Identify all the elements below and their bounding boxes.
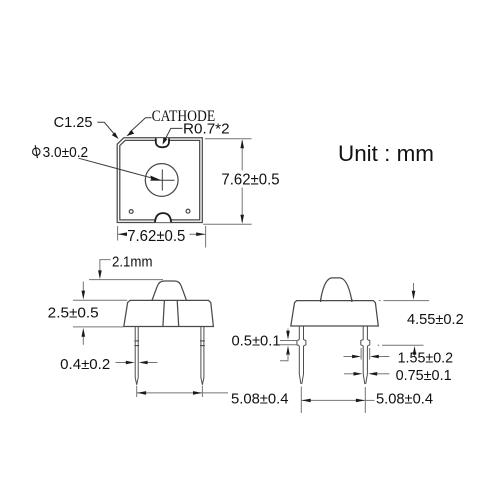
svg-text:4.55±0.2: 4.55±0.2 xyxy=(407,311,464,328)
svg-text:R0.7*2: R0.7*2 xyxy=(183,122,230,138)
svg-text:C1.25: C1.25 xyxy=(54,115,93,131)
svg-text:2.1mm: 2.1mm xyxy=(112,254,153,271)
svg-text:7.62±0.5: 7.62±0.5 xyxy=(221,172,279,189)
svg-text:3.0±0.2: 3.0±0.2 xyxy=(43,144,89,161)
svg-text:7.62±0.5: 7.62±0.5 xyxy=(127,228,185,245)
svg-text:Unit : mm: Unit : mm xyxy=(338,141,434,166)
svg-text:2.5±0.5: 2.5±0.5 xyxy=(48,305,99,322)
svg-text:0.5±0.1: 0.5±0.1 xyxy=(232,332,281,349)
svg-text:5.08±0.4: 5.08±0.4 xyxy=(231,391,289,408)
svg-text:5.08±0.4: 5.08±0.4 xyxy=(376,391,433,408)
svg-text:0.75±0.1: 0.75±0.1 xyxy=(396,367,452,384)
svg-text:1.55±0.2: 1.55±0.2 xyxy=(398,350,454,367)
svg-text:0.4±0.2: 0.4±0.2 xyxy=(60,356,110,373)
